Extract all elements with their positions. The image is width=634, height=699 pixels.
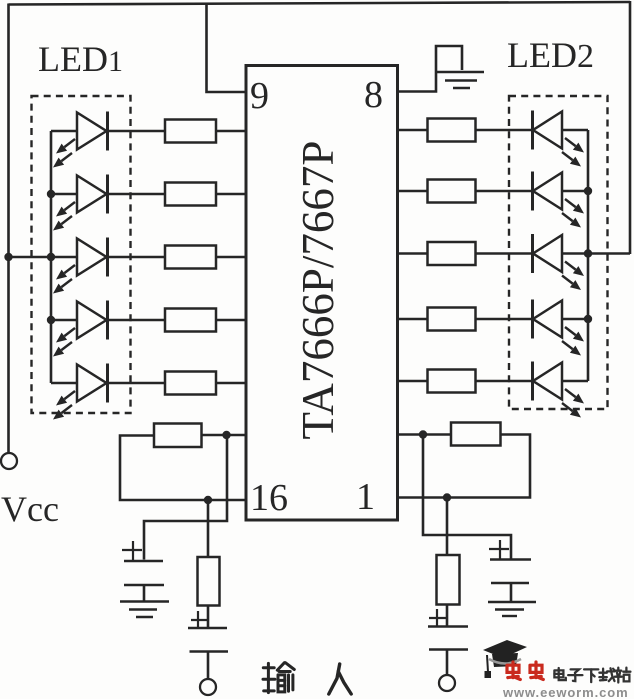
- capacitor C2: [188, 628, 228, 679]
- wire pin 8 to ground: [398, 46, 463, 92]
- resistor R12: [198, 557, 220, 606]
- LED D3 (LED1 group): [53, 238, 108, 294]
- LED D4 (LED1 group): [53, 301, 108, 357]
- wire LED D2 anode: [51, 193, 77, 196]
- ground GND3: [488, 602, 536, 616]
- junction node B: [204, 496, 212, 504]
- wire D10 anode: [562, 380, 588, 383]
- LED D7 (LED2 group): [533, 172, 585, 228]
- input terminal IN1: [200, 679, 216, 695]
- resistor R9: [428, 308, 476, 331]
- wire D4 cathode to R4: [108, 319, 166, 322]
- resistor R6: [428, 119, 476, 142]
- wire LED D4 anode: [51, 319, 77, 322]
- svg-text:9: 9: [250, 75, 269, 117]
- pin 8 label: [364, 74, 383, 116]
- wire U1 to R10: [398, 380, 428, 383]
- wire R14 to C4: [446, 605, 449, 628]
- ground GND2: [120, 602, 169, 618]
- capacitor C1: [124, 561, 164, 585]
- LED D2 (LED1 group): [53, 175, 108, 231]
- pin 1 label: [356, 476, 375, 518]
- wire node A to C1: [144, 435, 227, 560]
- wire R8 to D8 cathode: [476, 252, 533, 255]
- wire R4 to U1: [216, 319, 246, 322]
- wire Vcc rail to LED1 bus: [9, 256, 52, 259]
- wire R9 to D9 cathode: [476, 318, 533, 321]
- wire node D to R14: [446, 498, 449, 556]
- svg-text:TA7666P/7667P: TA7666P/7667P: [293, 141, 343, 440]
- capacitor C1 plus mark: [122, 541, 142, 560]
- wire C1 to ground: [143, 585, 146, 601]
- wire R6 to D6 cathode: [476, 129, 533, 132]
- label LED1: [38, 39, 123, 79]
- IC U1 TA7666P/7667P body: [246, 66, 398, 521]
- svg-text:www.eeworm.com: www.eeworm.com: [502, 685, 629, 699]
- watermark www.eeworm.com: [502, 685, 629, 699]
- capacitor C3: [490, 560, 531, 584]
- node LED2 anode bus: [587, 130, 590, 381]
- LED D6 (LED2 group): [533, 111, 585, 167]
- junction LED2 bus: [584, 187, 592, 195]
- capacitor C4 plus mark: [429, 609, 447, 627]
- wire D2 cathode to R2: [108, 193, 166, 196]
- wire D8 anode: [562, 252, 588, 255]
- resistor R1: [165, 120, 216, 143]
- watermark 电子下载站: [554, 668, 630, 683]
- wire R7 to D7 cathode: [476, 190, 533, 193]
- watermark 虫虫: [507, 662, 543, 680]
- capacitor C4: [428, 627, 468, 676]
- wire LED D5 anode: [51, 382, 77, 385]
- wire top supply rail: [9, 2, 631, 5]
- svg-text:LED2: LED2: [507, 35, 594, 75]
- wire R5 to U1: [216, 382, 246, 385]
- wire D5 cathode to R5: [108, 382, 166, 385]
- wire D7 anode: [562, 190, 588, 193]
- wire R11 to U1 pin15: [202, 434, 247, 437]
- wire R1 to U1: [216, 130, 246, 133]
- wire D3 cathode to R3: [108, 256, 166, 259]
- LED D1 (LED1 group): [53, 112, 108, 168]
- resistor R14: [437, 555, 460, 605]
- wire right rail to LED2 node: [588, 252, 630, 255]
- watermark graduation-cap icon: [483, 640, 527, 678]
- LED2 dashed enclosure: [509, 96, 608, 409]
- resistor R2: [165, 183, 216, 206]
- resistor R4: [165, 309, 216, 332]
- wire LED D1 anode: [51, 130, 77, 133]
- wire U1 to R9: [398, 318, 428, 321]
- LED1 dashed enclosure: [32, 96, 131, 413]
- junction node A: [222, 431, 230, 439]
- wire R2 to U1: [216, 193, 246, 196]
- pin 9 label: [250, 75, 269, 117]
- junction LED2 bus: [584, 315, 592, 323]
- LED D9 (LED2 group): [533, 300, 585, 356]
- node LED1 anode bus: [50, 131, 53, 383]
- junction node C: [419, 430, 427, 438]
- label input 输: [263, 663, 294, 693]
- resistor R13: [451, 423, 501, 446]
- label U1 TA7666P/7667P: [293, 141, 343, 440]
- wire LED D3 anode: [51, 256, 77, 259]
- wire left Vcc rail: [7, 4, 10, 453]
- wire D1 cathode to R1: [108, 130, 166, 133]
- junction rail-LED1: [4, 253, 12, 261]
- Vcc terminal: [1, 453, 17, 469]
- resistor R3: [165, 246, 216, 269]
- input terminal IN2: [439, 675, 455, 691]
- junction LED1 bus: [47, 316, 55, 324]
- wire U1 to R7: [398, 190, 428, 193]
- resistor R5: [165, 372, 216, 395]
- wire node B to R12: [207, 500, 210, 557]
- resistor R11: [154, 424, 202, 448]
- pin 16 label: [250, 477, 288, 519]
- wire U1 pin2 to node C: [398, 433, 452, 436]
- resistor R8: [428, 242, 476, 265]
- label LED2: [507, 35, 594, 75]
- capacitor C3 plus mark: [489, 540, 509, 559]
- svg-text:16: 16: [250, 477, 288, 519]
- LED D5 (LED1 group): [53, 364, 108, 420]
- LED D10 (LED2 group): [533, 362, 585, 418]
- wire R12 to C2: [207, 606, 210, 629]
- junction node D: [443, 493, 451, 501]
- wire D9 anode: [562, 318, 588, 321]
- junction LED2 bus: [584, 249, 592, 257]
- wire R10 to D10 cathode: [476, 380, 533, 383]
- ground GND1 (pin 8): [436, 72, 484, 88]
- capacitor C2 plus mark: [191, 611, 209, 629]
- wire C3 to ground: [510, 583, 513, 602]
- junction LED1 bus: [47, 253, 55, 261]
- wire node C to C3: [423, 435, 511, 560]
- wire U1 to R8: [398, 252, 428, 255]
- wire D6 anode: [562, 129, 588, 132]
- resistor R10: [428, 370, 476, 393]
- LED D8 (LED2 group): [533, 234, 585, 290]
- svg-text:1: 1: [356, 476, 375, 518]
- svg-text:LED1: LED1: [38, 39, 123, 79]
- label input 入: [329, 664, 351, 694]
- label Vcc: [1, 489, 59, 529]
- wire right rail to LED2 bus: [629, 1, 632, 254]
- wire pin 9 to top rail: [207, 3, 247, 92]
- wire R11 loop left: [120, 436, 246, 501]
- resistor R7: [428, 180, 476, 203]
- junction LED1 bus: [47, 190, 55, 198]
- wire U1 to R6: [398, 129, 428, 132]
- wire R13 loop right: [398, 435, 531, 498]
- wire R3 to U1: [216, 256, 246, 259]
- svg-text:Vcc: Vcc: [1, 489, 59, 529]
- svg-text:8: 8: [364, 74, 383, 116]
